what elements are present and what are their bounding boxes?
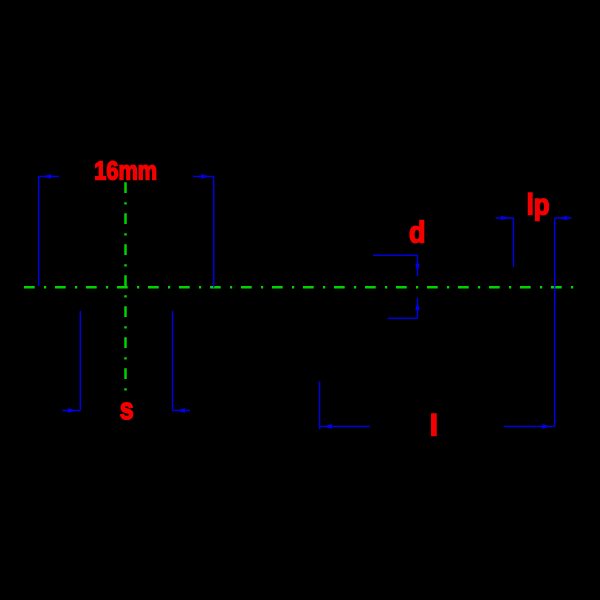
dim lp: right extension line (long, shared with dim l) bbox=[554, 218, 556, 426]
dim 16mm: left extension line bbox=[38, 176, 40, 286]
svg-text:lp: lp bbox=[527, 189, 550, 222]
dim d: bottom arrow line bbox=[417, 298, 419, 319]
svg-text:s: s bbox=[120, 391, 134, 426]
dim d: bottom arrowhead (up) bbox=[415, 302, 420, 311]
dim lp: right arrowhead bbox=[559, 216, 568, 221]
svg-text:d: d bbox=[409, 214, 426, 249]
dim l: left arrowhead bbox=[324, 424, 333, 429]
svg-text:l: l bbox=[430, 410, 438, 443]
dim l: left dimension segment bbox=[320, 425, 370, 427]
dim s: right extension line bbox=[172, 311, 174, 411]
vertical centerline (green dash-dot) bbox=[124, 182, 127, 393]
dim 16mm: left arrowhead bbox=[43, 174, 52, 179]
dim s: right arrowhead bbox=[177, 408, 186, 413]
svg-text:16mm: 16mm bbox=[94, 157, 157, 185]
dim d: bottom leader line bbox=[388, 317, 418, 319]
dim d: top arrow line bbox=[417, 255, 419, 276]
horizontal centerline (green dash-dot) bbox=[24, 286, 574, 289]
dim d: top leader line bbox=[373, 254, 418, 256]
dim l: left extension line bbox=[319, 381, 321, 429]
dim s: right dimension segment bbox=[173, 410, 191, 412]
dim s: left arrowhead bbox=[68, 408, 77, 413]
dim lp: left dimension segment bbox=[496, 217, 514, 219]
dim 16mm: right arrowhead bbox=[201, 174, 210, 179]
dim lp: left extension line bbox=[513, 218, 515, 267]
dim d: top arrowhead (down) bbox=[415, 264, 420, 273]
dim 16mm: right dimension segment bbox=[193, 175, 214, 177]
dim 16mm: right extension line bbox=[213, 176, 215, 287]
dim lp: left arrowhead bbox=[501, 216, 510, 221]
dim l: right arrowhead bbox=[542, 424, 551, 429]
dim s: left dimension segment bbox=[63, 410, 81, 412]
dim l: right dimension segment bbox=[504, 425, 555, 427]
dim lp: right dimension segment bbox=[555, 217, 572, 219]
dim s: left extension line bbox=[79, 311, 81, 411]
dim 16mm: left dimension segment bbox=[39, 175, 59, 177]
